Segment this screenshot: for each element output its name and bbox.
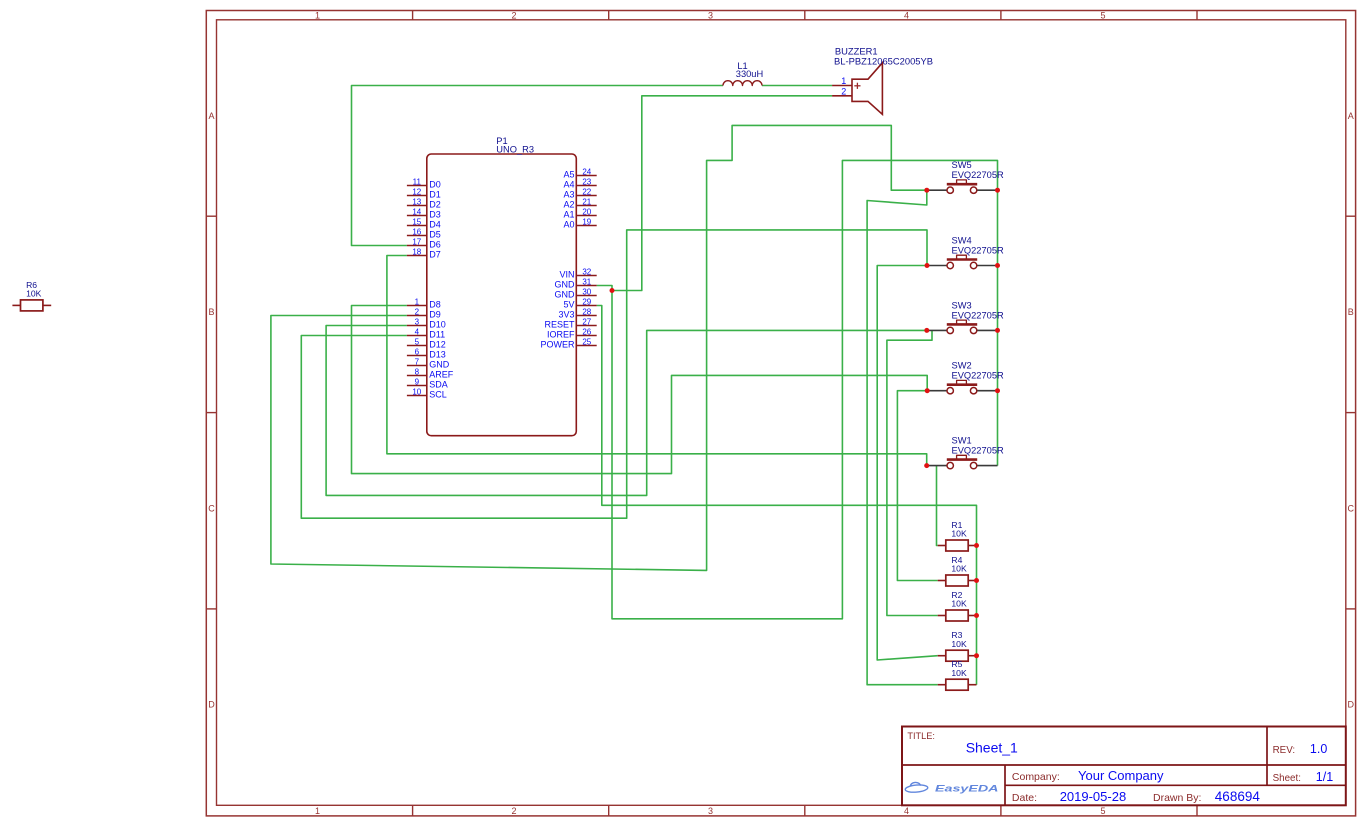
svg-text:SW3: SW3 (952, 300, 972, 310)
svg-text:A3: A3 (563, 190, 574, 200)
switch SW5 EVQ22705R (927, 160, 1004, 193)
svg-text:A4: A4 (563, 180, 574, 190)
frame row ticks left (206, 216, 216, 609)
pin 24 A5 (563, 167, 596, 179)
pin 10 SCL (407, 387, 447, 399)
svg-text:D11: D11 (429, 330, 445, 340)
wire net D9 to SW5 (271, 125, 927, 570)
svg-text:2: 2 (511, 806, 516, 816)
svg-text:EVQ22705R: EVQ22705R (952, 446, 1004, 456)
connector P1 UNO_R3 body (427, 154, 577, 436)
svg-text:2: 2 (841, 87, 846, 97)
junction SW3 left (924, 328, 929, 333)
svg-text:Company:: Company: (1012, 771, 1060, 783)
svg-text:1: 1 (415, 297, 420, 306)
pin 29 5V (563, 297, 596, 309)
junction SW1 left (924, 463, 929, 468)
svg-text:EasyEDA: EasyEDA (935, 783, 999, 794)
resistor R4 10K (938, 555, 977, 586)
svg-text:10: 10 (412, 387, 421, 396)
svg-text:31: 31 (582, 277, 591, 286)
svg-text:A: A (208, 111, 214, 121)
frame column ticks bottom (413, 805, 1197, 816)
svg-text:D8: D8 (429, 300, 441, 310)
svg-text:EVQ22705R: EVQ22705R (952, 246, 1004, 256)
svg-text:10K: 10K (951, 599, 967, 609)
pin 3 D10 (407, 317, 446, 329)
svg-text:1: 1 (315, 806, 320, 816)
pin 25 POWER (540, 337, 596, 349)
pin 1 D8 (407, 297, 441, 309)
svg-text:1: 1 (841, 76, 846, 86)
pin 22 A3 (563, 187, 596, 199)
svg-text:16: 16 (412, 227, 421, 236)
svg-text:5: 5 (1100, 806, 1105, 816)
svg-text:28: 28 (582, 307, 591, 316)
pin 31 GND (555, 277, 597, 289)
svg-text:10K: 10K (26, 289, 42, 299)
svg-text:D10: D10 (429, 320, 446, 330)
junction SW3 right GND bus (995, 328, 1000, 333)
svg-text:2: 2 (511, 10, 516, 20)
pin 19 A0 (563, 217, 596, 229)
svg-text:D7: D7 (429, 250, 441, 260)
switch SW1 EVQ22705R (927, 436, 1004, 469)
svg-text:SW1: SW1 (952, 436, 972, 446)
junction SW4 right GND bus (995, 263, 1000, 268)
junction SW2 left (925, 388, 930, 393)
svg-text:1/1: 1/1 (1316, 770, 1333, 784)
svg-text:C: C (208, 503, 215, 513)
sheet frame inner border (217, 20, 1346, 806)
svg-text:7: 7 (415, 357, 420, 366)
title block border (902, 727, 1346, 806)
svg-text:1: 1 (315, 10, 320, 20)
svg-text:BL-PBZ12065C2005YB: BL-PBZ12065C2005YB (834, 56, 933, 67)
svg-text:5V: 5V (563, 300, 574, 310)
wire net GND: pin31 to junction (597, 286, 612, 291)
pin 9 SDA (407, 377, 448, 389)
svg-text:C: C (1347, 503, 1354, 513)
inductor L1 330uH (723, 61, 763, 86)
resistor R2 10K (938, 590, 977, 621)
svg-text:24: 24 (582, 167, 591, 176)
svg-text:IOREF: IOREF (547, 330, 575, 340)
junction GND net (610, 288, 615, 293)
pin 2 D9 (407, 307, 441, 319)
pin 4 D11 (407, 327, 445, 339)
svg-text:25: 25 (582, 337, 591, 346)
pin 16 D5 (407, 227, 441, 239)
wire SW2 to R4 (897, 391, 937, 581)
svg-text:EVQ22705R: EVQ22705R (952, 170, 1004, 180)
svg-text:1.0: 1.0 (1310, 742, 1327, 756)
svg-text:9: 9 (415, 377, 420, 386)
svg-text:D5: D5 (429, 230, 441, 240)
pin 32 VIN (559, 267, 596, 279)
pin 17 D6 (407, 237, 441, 249)
svg-text:D: D (208, 700, 215, 710)
svg-text:D2: D2 (429, 200, 441, 210)
junction SW5 right GND bus (995, 188, 1000, 193)
svg-text:13: 13 (412, 197, 421, 206)
svg-text:SW4: SW4 (952, 236, 972, 246)
svg-text:21: 21 (582, 197, 591, 206)
svg-text:GND: GND (555, 290, 576, 300)
svg-text:Drawn By:: Drawn By: (1153, 792, 1201, 804)
svg-text:Sheet_1: Sheet_1 (966, 739, 1018, 755)
svg-text:D1: D1 (429, 190, 441, 200)
frame row ticks right (1346, 216, 1356, 609)
svg-text:6: 6 (415, 347, 420, 356)
svg-text:5: 5 (1100, 10, 1105, 20)
svg-text:A0: A0 (563, 220, 574, 230)
junction R4 right 5V bus (974, 578, 979, 583)
switch SW3 EVQ22705R (927, 300, 1004, 333)
pin 11 D0 (407, 177, 441, 189)
wire net D6 to L1 (352, 86, 724, 246)
wire net D7 to SW1 (387, 256, 927, 466)
svg-text:D0: D0 (429, 180, 441, 190)
svg-text:10K: 10K (951, 639, 967, 649)
svg-text:Your Company: Your Company (1078, 768, 1164, 783)
pin 20 A1 (563, 207, 596, 219)
EasyEDA logo (905, 782, 999, 794)
svg-text:22: 22 (582, 187, 591, 196)
svg-text:D9: D9 (429, 310, 441, 320)
svg-text:330uH: 330uH (736, 69, 763, 79)
svg-text:26: 26 (582, 327, 591, 336)
wire SW3 to R2 (887, 330, 938, 615)
svg-text:23: 23 (582, 177, 591, 186)
wire GND junction to buzzer pin2 (612, 96, 832, 291)
title block row line 2 (1005, 784, 1346, 786)
svg-text:D12: D12 (429, 340, 446, 350)
wire net D11 to SW4 (301, 230, 927, 518)
svg-text:SCL: SCL (429, 390, 447, 400)
wire L1 to buzzer pin1 (762, 85, 832, 87)
svg-text:30: 30 (582, 287, 591, 296)
svg-text:29: 29 (582, 297, 591, 306)
title block row line 1 (902, 764, 1346, 766)
svg-text:SW2: SW2 (952, 361, 972, 371)
pin 27 RESET (544, 317, 596, 329)
svg-text:32: 32 (582, 267, 591, 276)
svg-text:SW5: SW5 (952, 160, 972, 170)
svg-text:EVQ22705R: EVQ22705R (952, 310, 1004, 320)
pin 26 IOREF (547, 327, 597, 339)
svg-text:VIN: VIN (559, 270, 574, 280)
frame column ticks top (413, 11, 1197, 20)
svg-text:REV:: REV: (1273, 745, 1296, 756)
svg-text:Date:: Date: (1012, 792, 1037, 804)
pin 12 D1 (407, 187, 441, 199)
svg-text:3: 3 (415, 317, 420, 326)
wire net 5V: pin29 down to resistor bus (597, 306, 977, 685)
pin 21 A2 (563, 197, 596, 209)
pin 8 AREF (407, 367, 454, 379)
junction SW4 left (925, 263, 930, 268)
svg-text:TITLE:: TITLE: (907, 731, 935, 741)
svg-text:A5: A5 (563, 170, 574, 180)
svg-text:POWER: POWER (540, 340, 575, 350)
switch SW2 EVQ22705R (927, 361, 1004, 394)
svg-text:A: A (1348, 111, 1354, 121)
svg-text:5: 5 (415, 337, 420, 346)
wire SW1 to R1 (937, 466, 938, 546)
junction R3 right 5V bus (974, 653, 979, 658)
svg-text:10K: 10K (951, 668, 967, 678)
buzzer BUZZER1 BL-PBZ12065C2005YB (832, 46, 933, 115)
svg-text:D4: D4 (429, 220, 441, 230)
svg-text:SDA: SDA (429, 380, 448, 390)
svg-text:468694: 468694 (1215, 789, 1261, 804)
svg-text:3: 3 (708, 10, 713, 20)
svg-text:GND: GND (429, 360, 450, 370)
svg-text:AREF: AREF (429, 370, 454, 380)
switch SW4 EVQ22705R (927, 236, 1004, 269)
pin 23 A4 (563, 177, 596, 189)
frame column numbers bottom (315, 806, 1106, 816)
title block rev column divider (1266, 727, 1268, 786)
pin 13 D2 (407, 197, 441, 209)
frame row letters right (1347, 111, 1354, 710)
wire net D10 to SW3 (326, 326, 927, 496)
svg-text:20: 20 (582, 207, 591, 216)
pin 6 D13 (407, 347, 446, 359)
pin 30 GND (555, 287, 597, 299)
svg-text:B: B (1348, 307, 1354, 317)
svg-text:2019-05-28: 2019-05-28 (1060, 789, 1127, 804)
svg-text:Sheet:: Sheet: (1273, 773, 1301, 784)
svg-text:UNO_R3: UNO_R3 (496, 145, 534, 155)
svg-text:11: 11 (413, 177, 422, 186)
pin 5 D12 (407, 337, 446, 349)
pin 7 GND (407, 357, 450, 369)
svg-text:4: 4 (415, 327, 420, 336)
svg-text:27: 27 (582, 317, 591, 326)
svg-text:GND: GND (555, 280, 576, 290)
svg-text:A2: A2 (563, 200, 574, 210)
svg-text:3V3: 3V3 (558, 310, 574, 320)
frame column numbers top (315, 10, 1106, 20)
svg-text:10K: 10K (951, 529, 967, 539)
resistor R5 10K (938, 659, 977, 690)
pin 14 D3 (407, 207, 441, 219)
svg-text:18: 18 (412, 247, 421, 256)
resistor R3 10K (938, 630, 977, 661)
title block logo cell divider (1004, 765, 1006, 805)
pin 18 D7 (407, 247, 441, 259)
svg-text:10K: 10K (951, 564, 967, 574)
wire SW4 to R3 (877, 266, 938, 661)
svg-text:14: 14 (412, 207, 421, 216)
svg-text:2: 2 (415, 307, 420, 316)
svg-text:D: D (1347, 700, 1354, 710)
svg-text:A1: A1 (563, 210, 574, 220)
wire net D8 to SW2 (352, 306, 928, 474)
junction R2 right 5V bus (974, 613, 979, 618)
junction R1 right 5V bus (974, 543, 979, 548)
resistor R1 10K (938, 520, 977, 551)
svg-text:D13: D13 (429, 350, 446, 360)
pin 28 3V3 (558, 307, 596, 319)
svg-text:8: 8 (415, 367, 420, 376)
svg-text:4: 4 (904, 10, 909, 20)
svg-text:4: 4 (904, 806, 909, 816)
svg-text:15: 15 (412, 217, 421, 226)
svg-text:D3: D3 (429, 210, 441, 220)
pin 15 D4 (407, 217, 441, 229)
junction SW2 right GND bus (995, 388, 1000, 393)
wire GND junction down to switch bus (612, 160, 998, 618)
svg-text:12: 12 (412, 187, 421, 196)
svg-text:17: 17 (412, 237, 421, 246)
svg-text:3: 3 (708, 806, 713, 816)
svg-text:19: 19 (582, 217, 591, 226)
frame row letters left (208, 111, 215, 710)
resistor R6 10K (12, 280, 51, 311)
svg-text:B: B (208, 307, 214, 317)
svg-text:RESET: RESET (544, 320, 575, 330)
wire SW5 to R5 (867, 190, 938, 685)
svg-text:D6: D6 (429, 240, 441, 250)
svg-text:EVQ22705R: EVQ22705R (952, 371, 1004, 381)
junction SW5 left (924, 188, 929, 193)
